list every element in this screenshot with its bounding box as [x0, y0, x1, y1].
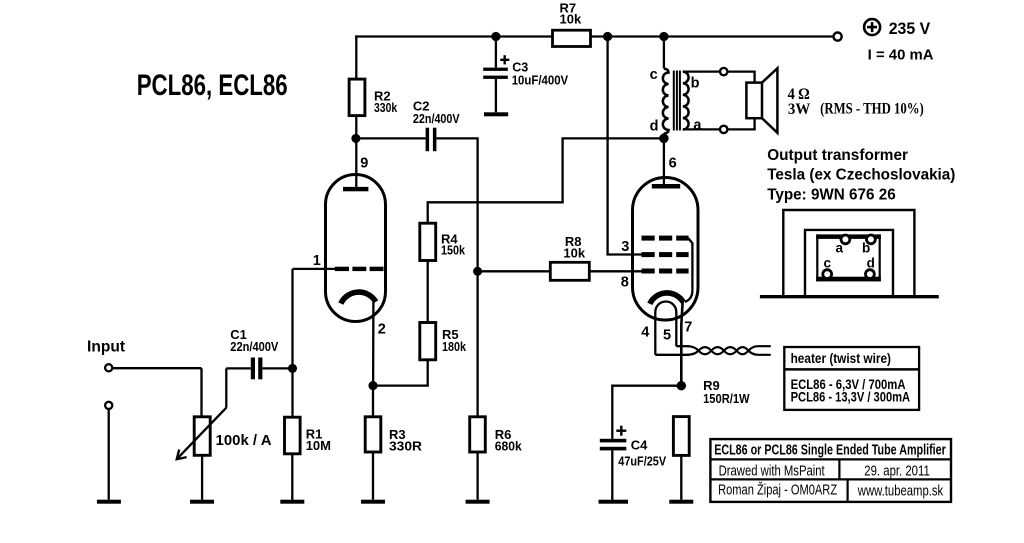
svg-text:Input: Input	[87, 339, 125, 356]
svg-text:Type: 9WN 676 26: Type: 9WN 676 26	[767, 187, 896, 204]
transformer outline drawing	[783, 210, 914, 296]
terminal b	[720, 68, 727, 75]
potentiometer 100k/A	[200, 368, 202, 417]
transformer secondary winding	[683, 72, 689, 130]
transformer drawing bobbin	[816, 234, 881, 239]
capacitor C4	[600, 439, 627, 443]
speaker	[746, 83, 762, 119]
wire input to potentiometer	[112, 367, 201, 369]
wire R2 top lead	[355, 35, 357, 79]
svg-text:heater (twist wire): heater (twist wire)	[791, 350, 891, 366]
wire R8 to pin 8	[589, 270, 641, 272]
svg-text:10M: 10M	[306, 438, 331, 453]
wire terminal b to speaker	[727, 72, 754, 83]
wire pin 7 lead to R9 junction	[681, 299, 683, 386]
transformer T1 primary winding	[663, 37, 665, 69]
resistor R1	[291, 368, 293, 417]
svg-text:b: b	[691, 75, 700, 91]
wire pin 2 lead	[372, 302, 375, 386]
internal g3 to cathode link	[685, 238, 693, 302]
svg-text:22n/400V: 22n/400V	[413, 111, 460, 126]
wire secondary top to terminal b	[683, 70, 720, 72]
resistor R3	[372, 386, 374, 417]
ground C4	[599, 500, 629, 504]
svg-text:(RMS - THD 10%): (RMS - THD 10%)	[820, 101, 924, 118]
pentode V1 envelope	[633, 178, 699, 321]
transformer drawing base line	[760, 295, 939, 298]
wire feedback from pentode anode to R4	[428, 138, 664, 223]
annotation output transformer	[767, 147, 955, 204]
svg-text:Tesla (ex Czechoslovakia): Tesla (ex Czechoslovakia)	[767, 167, 955, 184]
potentiometer wiper arrow	[177, 408, 227, 460]
transformer drawing terminals	[823, 235, 876, 279]
node screen-feed junction	[604, 33, 611, 40]
svg-text:a: a	[693, 118, 702, 134]
svg-text:10uF/400V: 10uF/400V	[512, 73, 569, 88]
wire heater leads to twist	[655, 354, 689, 356]
capacitor C1	[226, 367, 251, 369]
resistor R8	[550, 262, 589, 280]
capacitor C2	[426, 128, 430, 152]
ground R9	[669, 500, 693, 504]
svg-text:3W: 3W	[788, 101, 810, 118]
svg-text:b: b	[862, 241, 870, 256]
svg-text:9: 9	[360, 156, 368, 172]
transformer core	[674, 71, 680, 131]
triode anode plate pin 9	[343, 187, 368, 191]
svg-text:6: 6	[669, 155, 677, 171]
terminal input return	[105, 402, 112, 409]
triode grid dashes pin 1	[335, 267, 384, 271]
terminal 235V	[834, 33, 842, 41]
svg-text:I = 40 mA: I = 40 mA	[868, 48, 934, 64]
wire anode junction to C2	[356, 137, 426, 139]
node transformer primary junction	[660, 33, 667, 40]
svg-text:c: c	[650, 67, 658, 83]
node R8/R6 junction	[474, 268, 481, 275]
svg-text:10k: 10k	[560, 12, 582, 27]
wire R5 to cathode junction	[373, 360, 428, 386]
terminal input hot	[105, 364, 112, 371]
wire secondary bottom to terminal a	[683, 128, 720, 130]
node R9/C4 junction	[678, 382, 685, 389]
wire R2 bottom lead	[355, 116, 357, 139]
resistor R4	[420, 223, 436, 260]
svg-text:150R/1W: 150R/1W	[703, 391, 750, 406]
heater filament pins 4 5	[655, 302, 676, 355]
node triode anode junction	[353, 135, 360, 142]
svg-text:a: a	[836, 241, 844, 256]
node triode cathode junction	[370, 382, 377, 389]
triode V1 envelope	[326, 175, 386, 322]
svg-text:PCL86, ECL86: PCL86, ECL86	[137, 69, 288, 102]
svg-text:7: 7	[684, 320, 692, 336]
wire terminal a to speaker	[727, 118, 754, 129]
node pentode anode junction d	[660, 135, 667, 142]
resistor R2	[349, 79, 365, 116]
wire B+ top rail	[355, 35, 833, 37]
wire input return to ground	[108, 409, 110, 500]
pentode grid dashes (3 rows)	[642, 236, 689, 274]
ground potentiometer	[190, 500, 214, 504]
svg-text:10k: 10k	[563, 245, 585, 260]
ground R6	[466, 500, 490, 504]
svg-text:5: 5	[663, 328, 671, 344]
ground R3	[361, 500, 385, 504]
svg-text:330k: 330k	[374, 100, 398, 115]
svg-text:180k: 180k	[442, 339, 467, 354]
resistor R6	[470, 417, 486, 452]
svg-text:Output transformer: Output transformer	[767, 147, 908, 164]
resistor R9	[673, 417, 689, 456]
capacitor C3	[495, 37, 497, 68]
svg-text:4: 4	[641, 325, 649, 341]
wire junction to R8	[478, 270, 551, 272]
svg-text:3: 3	[621, 239, 629, 255]
svg-text:150k: 150k	[441, 243, 466, 258]
terminal a	[720, 126, 727, 133]
svg-text:PCL86 - 13,3V / 300mA: PCL86 - 13,3V / 300mA	[791, 389, 911, 405]
svg-text:d: d	[650, 119, 659, 135]
svg-text:2: 2	[378, 322, 386, 338]
wire C2 to grid column	[436, 138, 477, 271]
label 4 ohm 3W RMS	[788, 86, 924, 118]
svg-text:29. apr. 2011: 29. apr. 2011	[864, 462, 930, 479]
pentode cathode arc	[650, 293, 683, 304]
svg-text:680k: 680k	[495, 439, 523, 454]
wire pin 6 lead	[663, 138, 665, 184]
svg-text:C4: C4	[631, 438, 648, 453]
ground C3	[484, 112, 508, 116]
node C3 junction	[492, 33, 499, 40]
wire pin 1 lead	[293, 268, 336, 270]
pentode anode plate pin 6	[652, 184, 680, 189]
svg-text:22n/400V: 22n/400V	[230, 339, 278, 354]
wire pin 9 lead	[355, 138, 357, 187]
resistor R5	[420, 323, 436, 360]
svg-text:Drawed with MsPaint: Drawed with MsPaint	[719, 462, 826, 479]
triode cathode arc	[341, 292, 376, 303]
resistor R7	[553, 30, 591, 46]
supply symbol plus-circle	[864, 19, 880, 35]
svg-text:d: d	[867, 256, 875, 271]
heater twist wire	[687, 346, 771, 355]
ground R1	[280, 500, 304, 504]
wire grid column (C1 to pin 1)	[291, 269, 293, 369]
svg-text:235 V: 235 V	[889, 19, 931, 38]
svg-text:ECL86 or PCL86 Single Ended Tu: ECL86 or PCL86 Single Ended Tube Amplifi…	[714, 443, 946, 459]
svg-text:Roman Žipaj - OM0ARZ: Roman Žipaj - OM0ARZ	[718, 482, 837, 499]
title block	[710, 439, 951, 502]
node grid/R1 junction	[289, 365, 296, 372]
wire screen feed from rail to pin 3	[608, 37, 642, 255]
svg-text:330R: 330R	[389, 439, 423, 454]
svg-text:1: 1	[313, 253, 321, 269]
svg-text:47uF/25V: 47uF/25V	[618, 453, 666, 468]
wire junction to C4	[612, 386, 681, 439]
svg-text:100k / A: 100k / A	[216, 432, 272, 449]
wire R4 to R5	[427, 261, 429, 323]
wire junction down to R6	[476, 271, 478, 417]
svg-text:8: 8	[621, 274, 629, 290]
heater info table	[784, 347, 919, 410]
svg-text:www.tubeamp.sk: www.tubeamp.sk	[857, 483, 944, 500]
ground input	[97, 500, 121, 504]
svg-text:c: c	[824, 256, 832, 271]
